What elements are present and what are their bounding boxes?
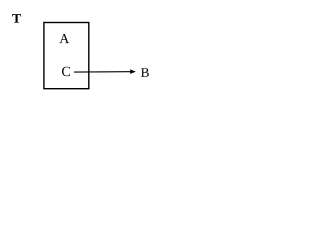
box T <box>44 23 89 89</box>
arrowhead <box>130 69 136 74</box>
box label T <box>12 14 21 22</box>
node A <box>59 34 69 43</box>
wire C to B <box>74 71 131 73</box>
node C <box>62 67 70 76</box>
node B <box>141 68 149 77</box>
